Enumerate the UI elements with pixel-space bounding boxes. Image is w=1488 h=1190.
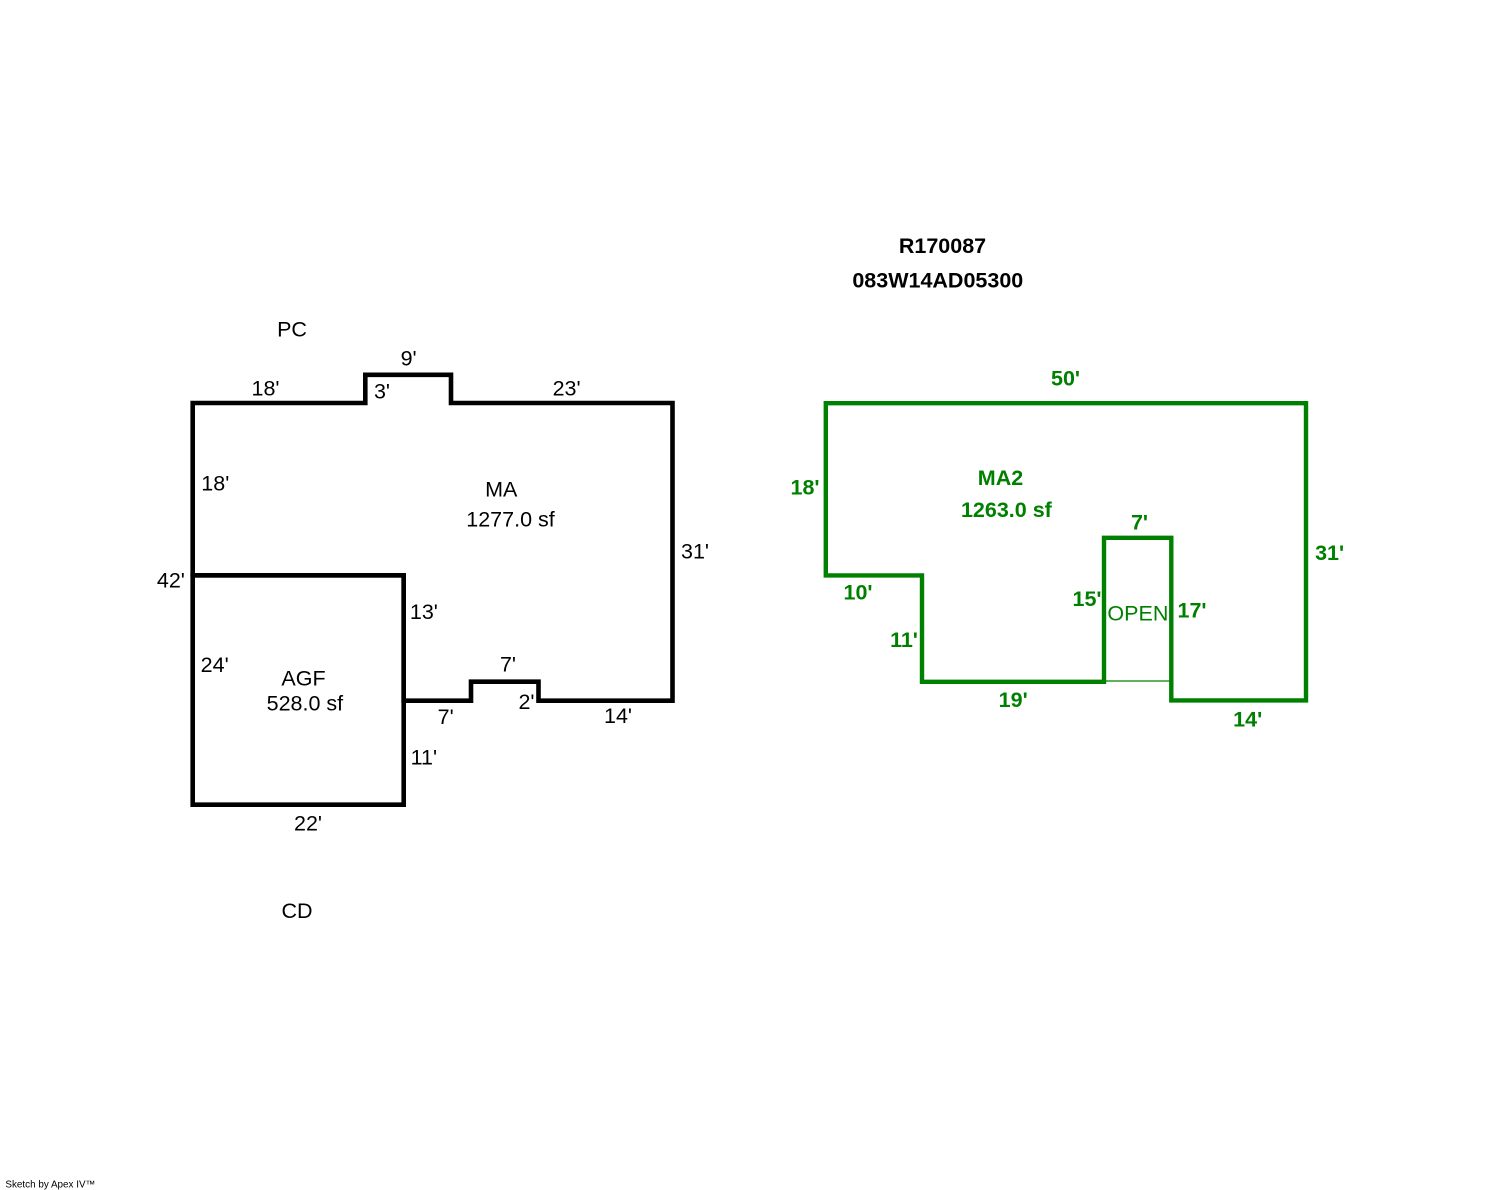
svg-text:Sketch by Apex IV™: Sketch by Apex IV™ xyxy=(5,1180,95,1190)
floor plan AGF outline xyxy=(193,575,404,804)
svg-text:1277.0 sf: 1277.0 sf xyxy=(466,508,554,532)
svg-text:PC: PC xyxy=(277,318,307,342)
svg-text:50': 50' xyxy=(1051,367,1080,391)
svg-text:10': 10' xyxy=(843,580,872,604)
svg-text:528.0 sf: 528.0 sf xyxy=(267,692,344,716)
svg-text:2': 2' xyxy=(518,690,534,714)
floor plan MA2 outline (green) xyxy=(826,403,1306,700)
svg-text:14': 14' xyxy=(604,704,632,728)
svg-text:22': 22' xyxy=(294,812,322,836)
svg-text:R170087: R170087 xyxy=(899,234,986,258)
svg-text:MA: MA xyxy=(485,478,518,502)
svg-text:24': 24' xyxy=(201,653,229,677)
svg-text:13': 13' xyxy=(410,600,438,624)
svg-text:18': 18' xyxy=(790,476,819,500)
svg-text:3': 3' xyxy=(374,379,390,403)
svg-text:11': 11' xyxy=(890,628,918,652)
svg-text:15': 15' xyxy=(1072,587,1101,611)
svg-text:9': 9' xyxy=(401,347,417,371)
svg-text:14': 14' xyxy=(1233,708,1262,732)
svg-text:42': 42' xyxy=(157,569,185,593)
svg-text:23': 23' xyxy=(553,377,581,401)
svg-text:18': 18' xyxy=(251,377,279,401)
svg-text:31': 31' xyxy=(1315,541,1344,565)
svg-text:MA2: MA2 xyxy=(978,466,1023,490)
svg-text:7': 7' xyxy=(1131,511,1148,535)
svg-text:17': 17' xyxy=(1177,599,1206,623)
svg-text:AGF: AGF xyxy=(281,667,325,691)
svg-text:11': 11' xyxy=(411,746,437,770)
svg-text:CD: CD xyxy=(281,899,312,923)
svg-text:7': 7' xyxy=(500,653,516,677)
svg-text:18': 18' xyxy=(201,472,229,496)
svg-text:083W14AD05300: 083W14AD05300 xyxy=(852,269,1023,293)
svg-text:31': 31' xyxy=(681,540,709,564)
svg-text:19': 19' xyxy=(999,688,1028,712)
thin open boundary line xyxy=(1104,680,1171,682)
svg-text:7': 7' xyxy=(438,705,454,729)
svg-text:OPEN: OPEN xyxy=(1107,602,1168,626)
floor plan MA outline xyxy=(193,375,673,701)
svg-text:1263.0 sf: 1263.0 sf xyxy=(961,498,1053,522)
